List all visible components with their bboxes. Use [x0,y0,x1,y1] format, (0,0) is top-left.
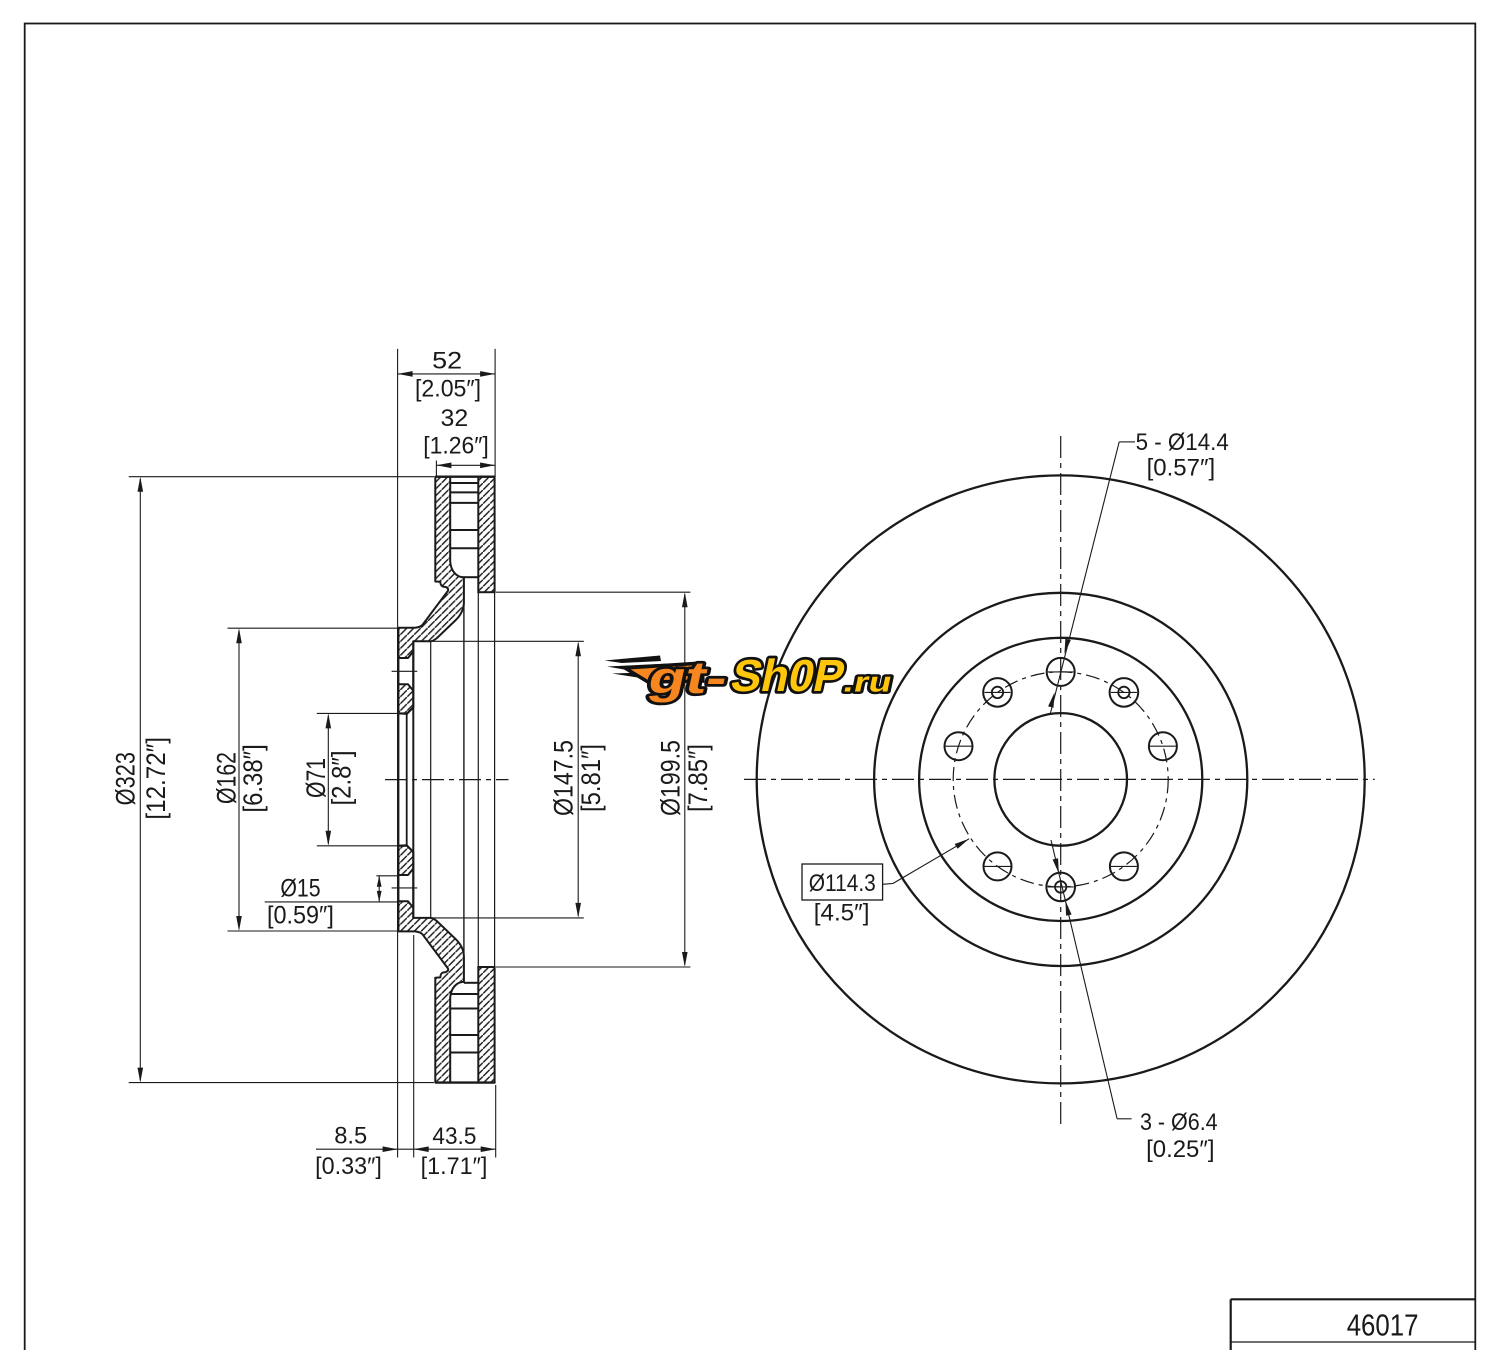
dim Ø162 [228,627,399,629]
svg-text:8.5: 8.5 [334,1122,367,1149]
vent vane lines bottom ring [450,993,478,995]
section: outboard plate bottom [478,967,494,1083]
bore Ø71 [406,714,408,845]
svg-text:[0.59″]: [0.59″] [267,902,334,930]
hub bore Ø71 [994,713,1127,846]
svg-text:5 - Ø14.4: 5 - Ø14.4 [1136,429,1229,456]
svg-text:52: 52 [432,347,462,374]
svg-text:Ø162: Ø162 [211,752,241,804]
circle Ø147.5 [919,638,1202,921]
title block [1231,1298,1476,1300]
svg-text:Ø114.3: Ø114.3 [809,870,876,897]
circle Ø199.5 [874,593,1247,966]
svg-text:.ru: .ru [841,666,896,698]
svg-text:[0.25″]: [0.25″] [1146,1136,1214,1163]
svg-text:[12.72″]: [12.72″] [141,737,171,820]
flange bolt hole center marks [392,670,418,672]
dims 8.5 / 43.5 [397,931,399,1157]
dim Ø147.5 [431,640,584,642]
3 set screw holes Ø6.4 [983,678,1012,707]
dim Ø15 (flange hole) [376,875,398,877]
front view centerlines [1060,436,1062,1124]
svg-text:[0.57″]: [0.57″] [1147,455,1216,482]
hat cylinder / plate silhouette lines through middle [463,604,465,955]
svg-text:[2.8″]: [2.8″] [327,751,357,806]
dim Ø71 [317,712,398,714]
svg-text:43.5: 43.5 [432,1123,476,1150]
flange face lines [397,628,399,932]
svg-text:32: 32 [441,405,469,432]
leader 5-Ø14.4 [1119,441,1135,443]
svg-text:Ø323: Ø323 [111,752,141,805]
leader Ø114.3 (boxed) [802,864,883,900]
leader 3-Ø6.4 [1051,840,1117,1119]
svg-text:[6.38″]: [6.38″] [238,744,268,812]
svg-text:Ø199.5: Ø199.5 [656,740,686,816]
svg-text:[1.26″]: [1.26″] [423,432,489,459]
dim Ø323 [129,476,434,478]
section: outboard plate top [478,477,494,593]
svg-text:Sh0P: Sh0P [727,650,850,700]
dim 32 [435,461,437,477]
dim Ø199.5 [496,591,690,593]
svg-text:[0.33″]: [0.33″] [315,1153,382,1180]
5 stud holes Ø14.4 [1047,658,1075,686]
svg-text:[7.85″]: [7.85″] [683,744,713,812]
ring OD edges [435,476,494,478]
svg-text:[4.5″]: [4.5″] [814,900,870,927]
svg-text:gt-: gt- [644,652,733,702]
vent vane lines top ring [450,482,478,484]
svg-text:[5.81″]: [5.81″] [576,744,606,812]
gt-shop.ru watermark logo [605,650,896,702]
bolt circle Ø114.3 (dashed) [953,672,1168,887]
disc outer circle Ø323 [757,475,1365,1083]
svg-text:3 - Ø6.4: 3 - Ø6.4 [1140,1109,1218,1136]
svg-text:46017: 46017 [1347,1308,1419,1343]
brake disc section: top hat+plate piece [398,477,464,714]
svg-text:[2.05″]: [2.05″] [415,376,481,403]
section centerline [385,779,509,781]
dim 52 [397,349,399,628]
brake disc section: bottom hat+plate piece [398,845,464,1082]
svg-text:Ø15: Ø15 [280,875,320,903]
svg-text:Ø147.5: Ø147.5 [549,740,579,816]
svg-text:[1.71″]: [1.71″] [421,1153,488,1180]
